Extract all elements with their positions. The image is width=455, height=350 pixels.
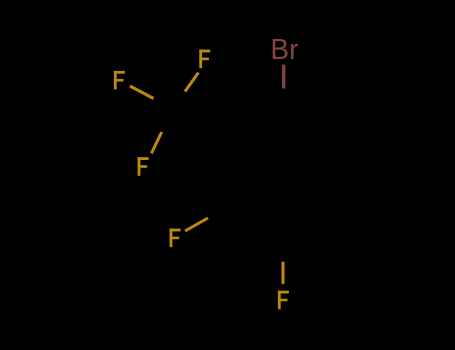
atom label F4 (ring C3): [170, 229, 181, 248]
atom label F2 (CF3 left): [114, 71, 125, 90]
bond C7-F3 (F half): [151, 132, 161, 153]
atom label F5 (ring C4): [278, 291, 289, 310]
bond C3-F4 (F half): [185, 218, 208, 231]
bond C1-Br (Br half): [282, 65, 285, 89]
bond C7-F2 (F half): [130, 86, 154, 99]
bond C7-F1 (F half): [185, 73, 199, 92]
bond C4-F5 (F half): [282, 262, 285, 284]
atom label F3 (CF3 bottom): [138, 157, 149, 176]
atom label F1 (CF3 top): [199, 50, 210, 69]
svg-text:Br: Br: [270, 34, 298, 66]
